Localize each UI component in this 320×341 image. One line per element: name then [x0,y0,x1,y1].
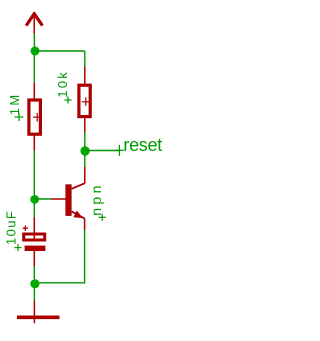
svg-text:10uF: 10uF [4,210,19,245]
capacitor C 10uF negative plate (solid) [25,246,46,251]
net label reset origin cross [115,145,124,156]
node A junction dot [31,47,40,56]
node B junction dot (reset node) [80,146,89,155]
wire Q1 emitter down and left to node C [35,230,85,283]
capacitor C 10uF positive plate (outlined) [24,234,45,240]
wire VCC to node A [33,34,35,48]
resistor 10k pin 2 [84,118,86,133]
svg-text:reset: reset [123,135,162,155]
wire right branch down to R 10k [84,51,86,67]
capacitor 10uF value label origin cross [15,244,22,251]
transistor Q1 base pin [51,198,66,200]
capacitor C 10uF origin stub [33,251,35,254]
svg-text:1M: 1M [7,92,22,115]
transistor npn label origin cross [99,214,106,221]
svg-text:npn: npn [88,182,104,216]
resistor 10k pin 1 [84,67,86,85]
resistor 1M pin 2 [33,136,35,151]
node C junction dot [30,279,39,288]
wire node C to ground [33,288,35,300]
resistor 10k value label origin cross [65,97,72,104]
resistor 10k body [79,85,90,116]
ground symbol bar [17,315,60,319]
wire node A to right branch (top horizontal) [35,50,85,52]
ground symbol pin [33,300,35,323]
wire R1M to node D (base node) [33,151,35,217]
wire C 10uF to node C [33,266,35,279]
transistor Q1 base bar [65,184,71,216]
resistor 1M origin cross [33,113,41,122]
supply symbol VCC arrow [26,12,42,34]
capacitor C 10uF polarity plus mark [23,226,28,231]
transistor Q1 emitter pin with arrow [72,211,85,230]
wire node B to reset label [85,150,120,152]
wire R10k to node B [84,133,86,147]
resistor 1M body [29,100,41,134]
resistor 1M value label origin cross [15,113,24,121]
resistor 1M pin 1 [33,83,35,100]
capacitor C 10uF pin 1 [33,217,35,242]
resistor 10k origin cross [82,97,90,106]
node D junction dot [30,195,39,204]
transistor Q1 emitter arrowhead [73,211,83,219]
wire node A down to R 1M [33,55,35,83]
wire node D to Q1 base [35,198,51,200]
capacitor C 10uF pin 2 [33,251,35,266]
transistor Q1 collector pin [72,167,85,189]
svg-text:10k: 10k [55,70,70,98]
wire node B down to Q1 collector [84,155,86,167]
